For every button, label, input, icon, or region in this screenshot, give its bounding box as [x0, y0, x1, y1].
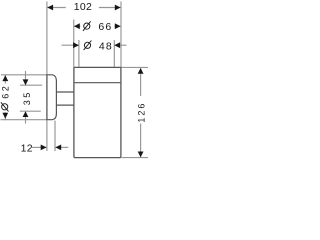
svg-text:12: 12 — [21, 142, 33, 154]
wire: extension line dia48 right — [113, 40, 115, 67]
arrow dia48 right (outside, points left) — [114, 42, 120, 48]
wall line (rose back plate) — [46, 74, 48, 120]
wire: left extension line (wall face) upper — [46, 2, 48, 75]
arrow dia48 left (outside, points right) — [73, 42, 79, 48]
tumbler right wall — [120, 67, 121, 157]
svg-text:66: 66 — [98, 21, 112, 33]
svg-text:102: 102 — [74, 1, 92, 13]
wire: dimension line 102 — [48, 7, 121, 9]
arm bottom edge — [56, 104, 74, 106]
wire: extension glass bottom right — [122, 157, 149, 159]
wire: dimension leader dia48 right — [114, 44, 126, 46]
arrow dia62 bottom — [2, 113, 8, 119]
arrow 126 top — [138, 68, 144, 74]
wire: extension line dia66 left — [73, 20, 75, 67]
arrow 102 right — [115, 5, 121, 11]
arrow 12 right (outside, points left) — [55, 145, 61, 151]
wire: right extension line x=121 top — [120, 2, 122, 68]
node: white gap under text dia66 — [80, 21, 114, 32]
wire: extension line rose top left — [1, 74, 46, 76]
tumbler left wall — [74, 67, 75, 157]
wire: left extension line (wall face) lower — [46, 120, 48, 151]
node: white gap under text dia62 — [1, 84, 11, 113]
wire: dim 12 right leader — [55, 146, 68, 148]
wire: dim 35 upper leader — [25, 71, 27, 80]
svg-text:48: 48 — [99, 40, 113, 52]
wire: dimension line dia62 vertical — [4, 75, 6, 120]
node: white gap under text 102 — [66, 2, 99, 13]
wire: dim 35 upper tick — [20, 84, 42, 86]
tumbler bottom — [75, 157, 121, 159]
diameter symbol for 48 — [84, 41, 92, 51]
tumbler rim top — [74, 66, 122, 68]
wire: extension line rose front below — [54, 121, 56, 152]
arrow dia66 left — [74, 23, 80, 29]
arrow dia66 right — [115, 23, 121, 29]
tumbler inner rim line — [74, 82, 120, 84]
svg-text:126: 126 — [136, 102, 146, 123]
arrow 35 upper (outside, points down) — [23, 79, 29, 85]
wire: extension line rose bottom left — [1, 119, 47, 121]
wire: dim 35 lower tick — [20, 110, 41, 112]
svg-text:35: 35 — [22, 90, 32, 105]
svg-text:62: 62 — [0, 84, 10, 99]
arrow 12 left (outside, points right) — [41, 145, 47, 151]
wire: dimension line dia66 — [74, 25, 120, 27]
wire: dim 35 lower leader — [25, 116, 27, 123]
wire: dimension leader dia48 left — [62, 44, 79, 46]
wire: extension line dia48 left — [78, 40, 80, 67]
wire: dimension line 126 vertical — [140, 68, 142, 157]
node: white gap under text 126 — [135, 96, 146, 124]
diameter symbol for 62 (rotated) — [1, 102, 9, 111]
rose outline (top, domed front, bottom) — [46, 75, 56, 120]
arrow 102 left — [47, 5, 53, 11]
arm top edge — [56, 91, 74, 93]
arrow dia62 top — [2, 75, 8, 81]
arrow 126 bottom — [138, 152, 144, 158]
diameter symbol for 66 — [83, 21, 91, 31]
wire: dim 12 left leader — [32, 146, 47, 148]
arrow 35 lower (outside, points up) — [23, 111, 29, 117]
wire: extension rim right — [122, 66, 149, 68]
